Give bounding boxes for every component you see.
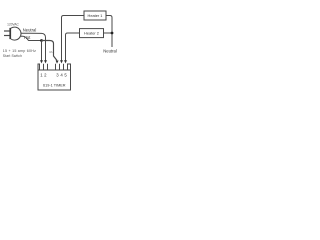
arrowhead pin 5 — [64, 60, 67, 63]
wire hot from plug to junction — [21, 36, 42, 40]
timer shroud left corner — [38, 64, 40, 70]
timer slot wall b3 — [63, 64, 65, 70]
svg-text:Neutral: Neutral — [103, 48, 117, 53]
svg-text:1: 1 — [40, 72, 43, 77]
timer slot wall a2 — [43, 64, 45, 70]
timer box — [38, 70, 71, 90]
timer shroud right corner — [68, 64, 71, 70]
wire heater 2 to neutral bus — [104, 32, 113, 34]
arrowhead pin 2 — [44, 60, 47, 63]
svg-text:Heater 1: Heater 1 — [88, 13, 103, 18]
plug prong lower — [4, 35, 10, 37]
timer slot wall a3 — [47, 64, 49, 70]
svg-text:120VAC: 120VAC — [7, 22, 19, 26]
plug prong upper — [4, 30, 10, 32]
heater 2 box — [80, 29, 104, 38]
wire heater 1 to neutral bus — [106, 16, 112, 48]
junction dot hot — [40, 39, 43, 42]
svg-text:619-1 TIMER: 619-1 TIMER — [43, 83, 66, 87]
plug face bar — [9, 28, 11, 39]
arrowhead pin 3 — [56, 61, 59, 64]
junction dot neutral bus — [111, 32, 114, 35]
svg-text:4: 4 — [60, 72, 63, 77]
wire hot branch to timer pin 1 — [41, 41, 43, 61]
wire timer pin 4 to Heater 1 — [62, 16, 85, 61]
timer slot wall b2 — [59, 64, 61, 70]
svg-text:Neutral: Neutral — [23, 27, 37, 32]
wire hot branch to timer pin 3 — [42, 41, 57, 61]
timer slot wall b1 — [55, 64, 57, 70]
svg-text:Heater 2: Heater 2 — [84, 31, 99, 36]
arrowhead pin 1 — [40, 60, 43, 63]
svg-text:15 + 15 amp 60Hz: 15 + 15 amp 60Hz — [3, 49, 36, 53]
svg-text:3: 3 — [56, 72, 59, 77]
svg-text:3A: 3A — [49, 50, 53, 54]
wire timer pin 5 to Heater 2 — [66, 33, 80, 61]
arrowhead pin 4 — [60, 60, 63, 63]
wire neutral from plug to timer pin 2 — [21, 33, 46, 60]
svg-text:2: 2 — [44, 72, 47, 77]
svg-text:Start Switch: Start Switch — [3, 54, 22, 58]
plug body P1 — [11, 27, 21, 40]
svg-text:5: 5 — [64, 72, 67, 77]
heater 1 box — [84, 11, 106, 20]
